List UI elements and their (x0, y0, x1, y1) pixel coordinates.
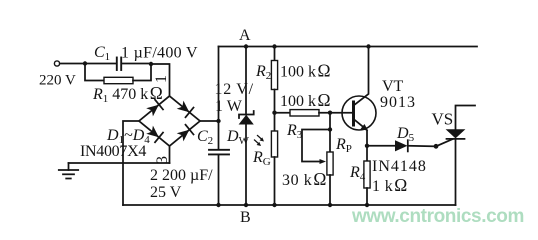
wire emitter down (366, 131, 368, 161)
node junction RG bottom (272, 203, 276, 207)
wire to D5 (367, 145, 395, 147)
svg-text:RP: RP (335, 136, 352, 155)
wire (366, 188, 368, 205)
wire ground line (69, 162, 170, 164)
wire A rail upper (245, 47, 247, 115)
svg-text:B: B (240, 209, 251, 226)
capacitor C1 (117, 58, 121, 71)
wire wiper loop (302, 130, 330, 162)
svg-text:IN4007X4: IN4007X4 (80, 143, 146, 160)
wire gate diagonal (436, 139, 453, 146)
wire R1 branch right (133, 64, 151, 81)
wire (60, 63, 85, 65)
resistor R4 (364, 161, 370, 188)
wire (85, 63, 116, 65)
node emitter/D5 junction (365, 144, 369, 148)
wire D5 to gate (408, 145, 436, 148)
svg-text:9013: 9013 (380, 94, 416, 111)
wire R1 branch left (85, 64, 104, 81)
wire bridge right vertex to C2 rail (200, 120, 219, 122)
wire A rail lower (245, 125, 247, 206)
resistor R3 (290, 110, 319, 116)
diode D3 bottom-left (146, 125, 163, 142)
terminal 220V input (54, 61, 59, 66)
wire R3 branch (275, 112, 291, 114)
svg-text:1 kΩ: 1 kΩ (372, 175, 408, 195)
diode D5 (395, 140, 408, 151)
svg-text:12 V/: 12 V/ (215, 81, 254, 98)
wire (274, 47, 276, 62)
wire (274, 157, 276, 205)
ground (59, 163, 78, 179)
svg-text:D5: D5 (396, 125, 415, 144)
svg-text:220 V: 220 V (39, 73, 76, 89)
bridge diamond wires (139, 96, 200, 146)
svg-text:C1: C1 (94, 44, 110, 63)
svg-text:3: 3 (154, 156, 171, 164)
svg-text:C2: C2 (197, 128, 213, 147)
capacitor C2 (209, 150, 229, 155)
node junction right of C1 (149, 62, 153, 66)
diode D2 top-right (176, 100, 193, 117)
resistor RG (271, 131, 277, 157)
svg-text:2 200 µF/: 2 200 µF/ (150, 167, 213, 184)
node junction B (244, 203, 248, 207)
wire (122, 63, 151, 65)
node junction R4 bottom (365, 203, 369, 207)
node junction Rp bottom (328, 203, 332, 207)
svg-text:www.cntronics.com: www.cntronics.com (351, 206, 524, 227)
svg-text:R2: R2 (255, 63, 271, 82)
potentiometer wiper arrow (320, 159, 327, 164)
resistor R1 (104, 77, 133, 83)
svg-text:30 kΩ: 30 kΩ (282, 169, 327, 189)
node A junction (244, 44, 248, 48)
diode D1 top-left (146, 100, 163, 117)
wire top rail (219, 46, 478, 48)
potentiometer Rp (327, 152, 333, 175)
wire C2 rail lower (218, 154, 220, 205)
wire (274, 90, 276, 132)
node gate junction (434, 144, 439, 149)
wire to bridge top (151, 64, 170, 96)
wire (329, 175, 331, 205)
zener diode DW (239, 111, 254, 125)
svg-text:VT: VT (382, 78, 404, 95)
wire bridge bottom vertex to ground line (169, 146, 171, 163)
node junction C2 bottom (216, 203, 220, 207)
wire C2 rail upper (218, 47, 220, 150)
node R2/R3 junction (272, 111, 276, 115)
node R2 top junction (272, 44, 276, 48)
svg-text:1: 1 (153, 75, 170, 83)
svg-text:IN4148: IN4148 (372, 158, 427, 175)
wire (319, 112, 353, 114)
transistor VT (342, 47, 376, 132)
node junction left of C1 (83, 61, 87, 65)
thyristor VS (446, 106, 475, 206)
node collector junction (366, 44, 370, 48)
svg-text:A: A (239, 27, 251, 44)
svg-text:1 µF/400 V: 1 µF/400 V (121, 45, 198, 62)
svg-text:VS: VS (432, 110, 454, 129)
svg-text:25 V: 25 V (150, 184, 182, 201)
node R3/base junction (328, 111, 332, 115)
resistor R2 (271, 61, 277, 90)
svg-text:100 kΩ: 100 kΩ (280, 90, 331, 110)
node wiper loop junction (328, 127, 332, 131)
node junction on C2 rail (216, 119, 220, 123)
wire bridge left vertex to down rail (123, 121, 139, 205)
diode D4 bottom-right (176, 125, 193, 142)
svg-text:100 kΩ: 100 kΩ (280, 61, 331, 81)
photoresistor RG arrows (255, 136, 265, 147)
svg-text:R3: R3 (286, 122, 303, 141)
wire Rp top (329, 113, 331, 152)
svg-text:1 W: 1 W (215, 98, 243, 115)
svg-text:R1 470 kΩ: R1 470 kΩ (92, 83, 163, 105)
wire bottom rail (123, 204, 456, 206)
svg-text:RG: RG (252, 149, 271, 168)
